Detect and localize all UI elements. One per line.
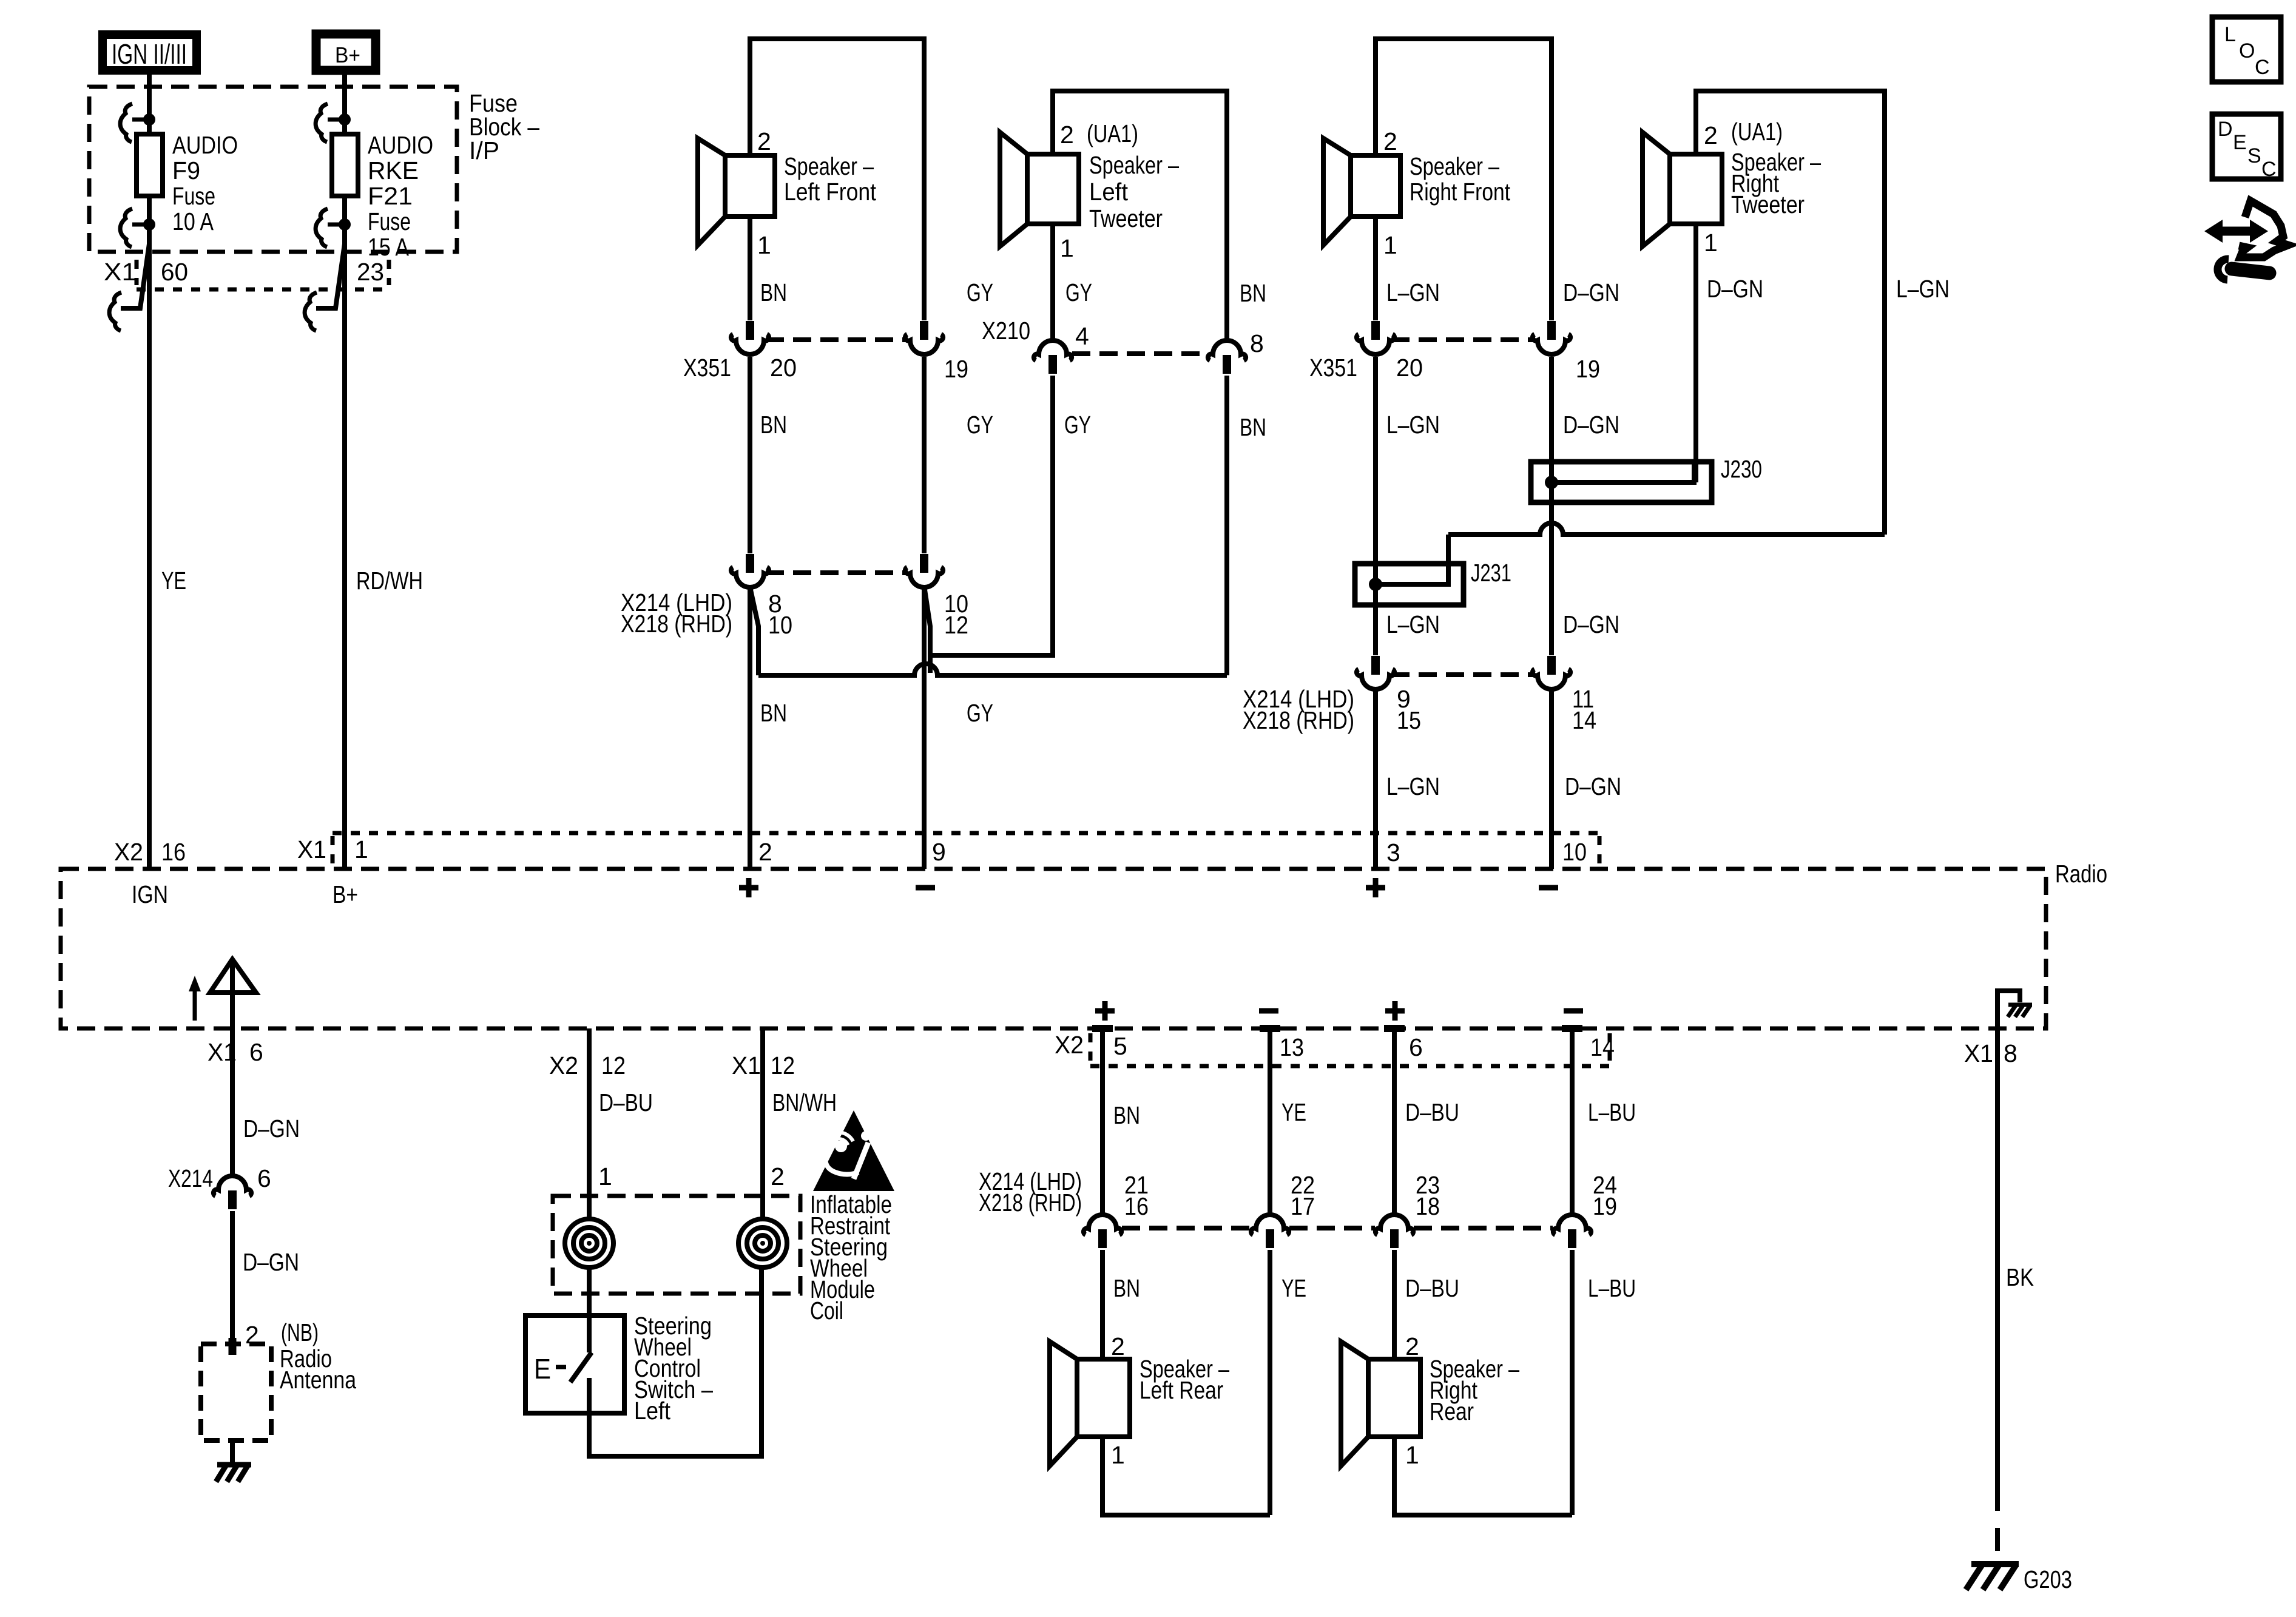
wire D-GN to radio pin 10 <box>1549 690 1554 869</box>
pin labels 21/16 <box>1124 1171 1149 1220</box>
wire D-BU to right rear speaker pin 2 <box>1392 1250 1397 1359</box>
wire switch to coil2 loop <box>589 1268 761 1456</box>
wire L-GN RF pin1 down <box>1373 217 1378 320</box>
label Fuse Block - I/P <box>469 89 539 164</box>
wrench icon <box>2218 259 2269 280</box>
svg-text:IGN: IGN <box>132 880 168 908</box>
svg-text:B+: B+ <box>335 42 360 67</box>
svg-text:14: 14 <box>1590 1033 1615 1061</box>
svg-text:YE: YE <box>1281 1274 1306 1302</box>
svg-text:F9: F9 <box>172 157 200 184</box>
svg-text:Right Front: Right Front <box>1410 178 1510 206</box>
connector X351 left dashed link <box>766 337 908 342</box>
svg-text:4: 4 <box>1075 322 1089 350</box>
wire BK radio X1-8 down <box>1995 1028 2000 1488</box>
ground G203 <box>1966 1564 2019 1590</box>
speaker Left Rear <box>1050 1342 1130 1466</box>
connector X214 pin 9/15 (L-GN) <box>1357 656 1394 689</box>
plus sign pin 3 <box>1366 878 1385 897</box>
svg-text:GY: GY <box>1064 411 1091 439</box>
svg-text:15: 15 <box>1397 706 1421 734</box>
label AUDIO RKE F21 Fuse 15 A <box>368 131 433 261</box>
wire D-BU radio X2-12 down <box>587 1028 592 1219</box>
connector X210 dashed link <box>1072 351 1207 356</box>
svg-text:C: C <box>2255 56 2270 79</box>
wire GY tweeter below X210 to elbow <box>930 376 1053 673</box>
wire BN radio X2-5 down <box>1100 1028 1105 1215</box>
svg-text:BN: BN <box>1113 1101 1140 1129</box>
wire BN to X214 <box>748 357 752 553</box>
connector X351 pin 19 (GY) <box>905 321 943 354</box>
svg-text:X1: X1 <box>297 836 326 863</box>
wire YE fuse F9 to radio IGN <box>147 196 152 869</box>
svg-text:2: 2 <box>1111 1332 1125 1360</box>
svg-text:Speaker –: Speaker – <box>1089 151 1179 179</box>
radio bottom pin X2 12 <box>549 1052 626 1079</box>
connector X210 pin 8 (BN) <box>1208 340 1246 374</box>
wire L-BU to right rear loop <box>1570 1250 1575 1515</box>
speaker Right Rear <box>1341 1342 1420 1466</box>
svg-text:D: D <box>2218 118 2233 141</box>
wire stub into antenna box <box>229 1338 237 1355</box>
speaker Left Tweeter <box>1000 132 1079 246</box>
connector X214 pin 11/14 (D-GN) <box>1533 656 1570 689</box>
radio antenna dashed box <box>201 1344 271 1440</box>
connector X214 pin 10/12 (GY) <box>905 554 943 587</box>
svg-text:BN: BN <box>760 279 787 306</box>
svg-text:X2: X2 <box>1055 1031 1084 1059</box>
svg-text:L–GN: L–GN <box>1386 610 1440 638</box>
svg-text:GY: GY <box>967 411 993 439</box>
svg-text:F21: F21 <box>368 182 413 210</box>
radio bottom pin X1 12 <box>732 1052 795 1079</box>
wire branch X214-8 to tweeter link <box>751 590 758 675</box>
svg-text:Left: Left <box>1089 178 1129 206</box>
svg-text:RD/WH: RD/WH <box>356 567 423 595</box>
svg-text:L–GN: L–GN <box>1386 411 1440 439</box>
clockspring coil 1 <box>565 1219 613 1268</box>
connector X1 pin 60 labels <box>104 258 188 286</box>
svg-text:15 A: 15 A <box>368 233 410 261</box>
svg-text:10: 10 <box>1562 838 1587 866</box>
coil module dashed box <box>553 1196 800 1294</box>
connector X214 pin 24/19 <box>1553 1215 1591 1248</box>
svg-text:Left Rear: Left Rear <box>1140 1376 1223 1404</box>
ground symbol inside radio (X1-8) <box>1997 991 2032 1028</box>
svg-text:L–GN: L–GN <box>1386 772 1440 800</box>
svg-text:2: 2 <box>1383 127 1397 155</box>
svg-text:Radio: Radio <box>2055 860 2107 888</box>
svg-text:(UA1): (UA1) <box>1731 118 1783 146</box>
connector X214 pin 8/10 (BN) <box>731 554 769 587</box>
svg-text:Left Front: Left Front <box>784 178 877 206</box>
fuse block I/P dashed box <box>89 87 457 252</box>
wire GY to X214 <box>922 357 927 553</box>
svg-text:1: 1 <box>1111 1441 1125 1469</box>
svg-text:D–GN: D–GN <box>1707 275 1763 303</box>
svg-text:6: 6 <box>249 1038 263 1066</box>
svg-text:AUDIO: AUDIO <box>368 131 433 159</box>
svg-text:X1: X1 <box>732 1052 761 1079</box>
svg-text:RKE: RKE <box>368 157 419 184</box>
svg-text:2: 2 <box>1704 121 1718 149</box>
svg-text:1: 1 <box>1060 234 1074 262</box>
svg-text:J230: J230 <box>1721 455 1762 483</box>
svg-text:YE: YE <box>1281 1098 1306 1126</box>
pin labels 9 / 15 <box>1397 685 1421 734</box>
svg-text:(NB): (NB) <box>281 1318 319 1346</box>
DESC reference box <box>2212 114 2281 181</box>
svg-text:10: 10 <box>768 611 792 639</box>
speaker Right Front <box>1323 138 1400 245</box>
pin labels 10 / 12 <box>944 590 968 639</box>
svg-text:BN: BN <box>1113 1274 1140 1302</box>
svg-text:20: 20 <box>1396 354 1423 382</box>
svg-text:O: O <box>2239 39 2255 62</box>
wire right rear pin1 loop to L-BU <box>1394 1437 1572 1515</box>
svg-text:10 A: 10 A <box>172 208 214 235</box>
wire D-GN radio X1-6 to X214-6 <box>230 1028 235 1176</box>
svg-text:BN: BN <box>760 411 787 439</box>
svg-text:L–BU: L–BU <box>1588 1274 1636 1302</box>
wire GY LT pin1 down <box>1050 224 1055 340</box>
connector X351 right dashed link <box>1391 337 1535 342</box>
svg-text:BN/WH: BN/WH <box>772 1089 837 1116</box>
connector X214 pin 23/18 <box>1376 1215 1413 1248</box>
svg-text:D–BU: D–BU <box>1405 1098 1459 1126</box>
svg-text:1: 1 <box>1704 229 1718 257</box>
antenna symbol inside radio <box>189 959 256 1028</box>
wire LT pin2 loop to BN branch <box>1053 91 1227 340</box>
wire BN to left rear speaker pin 2 <box>1100 1250 1105 1359</box>
svg-text:X218 (RHD): X218 (RHD) <box>621 610 732 638</box>
svg-text:23: 23 <box>357 258 384 286</box>
svg-text:D–GN: D–GN <box>243 1115 300 1143</box>
svg-text:60: 60 <box>161 258 188 286</box>
svg-text:2: 2 <box>758 838 772 866</box>
svg-text:Antenna: Antenna <box>280 1366 356 1394</box>
switch symbol E-/ <box>534 1352 592 1385</box>
svg-text:X1: X1 <box>104 258 137 286</box>
radio top pin labels X1 1 (B+) <box>297 836 368 863</box>
svg-text:13: 13 <box>1280 1033 1304 1061</box>
wire left rear pin1 loop to YE <box>1102 1437 1270 1515</box>
svg-text:Tweeter: Tweeter <box>1089 204 1163 232</box>
wire J231 branch to right tweeter L-GN (hop over D-GN) <box>1448 523 1885 564</box>
svg-text:1: 1 <box>1405 1441 1419 1469</box>
connector X214 pin 22/17 <box>1251 1215 1289 1248</box>
svg-text:(UA1): (UA1) <box>1087 120 1138 147</box>
power label IGN II/III <box>103 35 197 70</box>
svg-text:2: 2 <box>1060 121 1074 149</box>
svg-text:X218 (RHD): X218 (RHD) <box>1243 706 1354 734</box>
svg-text:16: 16 <box>161 838 186 866</box>
svg-text:D–BU: D–BU <box>1405 1274 1459 1302</box>
svg-text:G203: G203 <box>2024 1565 2072 1593</box>
X1 fuse block connector dotted outline <box>137 260 391 289</box>
minus sign pin 9 <box>916 885 935 891</box>
svg-text:18: 18 <box>1416 1192 1440 1220</box>
radio bottom pin X1 8 (ground) <box>1964 1039 2017 1067</box>
wire L-BU radio pin14 down <box>1570 1028 1575 1215</box>
wire IGN to fuse F9 <box>147 70 152 134</box>
label Speaker - Right Rear <box>1430 1355 1519 1425</box>
svg-text:19: 19 <box>1576 355 1600 383</box>
clockspring coil 2 <box>738 1219 787 1268</box>
label Speaker - Right Front <box>1410 152 1510 206</box>
label Speaker - Left Tweeter <box>1089 151 1179 232</box>
wire YE radio pin13 down <box>1268 1028 1272 1215</box>
svg-text:Speaker –: Speaker – <box>784 152 874 180</box>
connector X351 pin 20 (BN) <box>731 321 769 354</box>
wire B+ to fuse F21 <box>342 70 347 134</box>
svg-text:Fuse: Fuse <box>368 208 411 235</box>
wire YE to left rear loop <box>1268 1250 1272 1515</box>
svg-text:AUDIO: AUDIO <box>172 131 238 159</box>
wire branch X214-10 to GY junction <box>925 590 930 673</box>
svg-text:X2: X2 <box>114 838 143 866</box>
svg-text:X351: X351 <box>683 354 731 382</box>
wire RF pin2 loop to D-GN <box>1376 39 1551 320</box>
svg-text:X351: X351 <box>1309 354 1357 382</box>
svg-text:Coil: Coil <box>810 1297 843 1325</box>
svg-text:17: 17 <box>1291 1192 1315 1220</box>
terminal clip X1-23 <box>305 244 345 331</box>
svg-text:E: E <box>534 1353 551 1385</box>
wire D-BU radio pin6 down <box>1392 1028 1397 1215</box>
svg-text:B+: B+ <box>333 880 358 908</box>
wire D-GN to radio antenna <box>230 1211 235 1352</box>
wire BK dashed section <box>1995 1488 2000 1564</box>
svg-text:1: 1 <box>598 1163 612 1190</box>
svg-text:2: 2 <box>757 127 771 155</box>
svg-text:Speaker –: Speaker – <box>1410 152 1499 180</box>
label Speaker - Right Tweeter <box>1731 148 1821 218</box>
radio bottom pin X1 6 (antenna) <box>208 1038 263 1066</box>
svg-text:14: 14 <box>1572 706 1596 734</box>
svg-text:2: 2 <box>1405 1332 1419 1360</box>
svg-text:D–GN: D–GN <box>1563 279 1619 306</box>
svg-text:GY: GY <box>967 279 993 306</box>
svg-text:6: 6 <box>257 1164 271 1192</box>
wire LF pin2 loop to GY <box>750 39 924 320</box>
LOC reference box <box>2212 17 2281 82</box>
svg-text:BK: BK <box>2006 1263 2034 1291</box>
svg-text:1: 1 <box>1383 231 1397 259</box>
svg-text:3: 3 <box>1386 839 1400 866</box>
svg-text:16: 16 <box>1124 1192 1149 1220</box>
X1 connector dotted outline at radio top <box>333 833 1599 864</box>
svg-text:19: 19 <box>944 355 968 383</box>
svg-text:YE: YE <box>161 567 186 595</box>
wire L-GN X351 to J231 <box>1373 357 1378 655</box>
label Inflatable Restraint Steering Wheel Module Coil <box>810 1190 892 1325</box>
svg-text:C: C <box>2261 158 2277 181</box>
svg-text:BN: BN <box>760 699 787 727</box>
splice J231 <box>1355 564 1464 605</box>
wire L-GN to radio pin 3 <box>1373 690 1378 869</box>
wire coil1 to switch <box>587 1268 592 1352</box>
svg-text:2: 2 <box>771 1163 785 1190</box>
svg-text:8: 8 <box>1250 329 1264 357</box>
svg-text:S: S <box>2247 144 2261 167</box>
svg-text:X218 (RHD): X218 (RHD) <box>979 1189 1082 1217</box>
wire RD/WH fuse F21 to radio B+ <box>342 196 347 869</box>
svg-text:Fuse: Fuse <box>172 182 215 210</box>
svg-text:L–GN: L–GN <box>1386 279 1440 306</box>
connector X351 pin 20 (L-GN) <box>1357 321 1394 354</box>
connector X214 right dashed link <box>1391 672 1535 677</box>
airbag warning triangle <box>813 1110 894 1191</box>
label X214 (LHD) / X218 (RHD) <box>621 589 732 638</box>
svg-text:D–BU: D–BU <box>599 1089 653 1116</box>
svg-text:X210: X210 <box>982 317 1030 345</box>
svg-text:12: 12 <box>771 1052 795 1079</box>
connector X210 pin 4 (GY) <box>1034 340 1072 374</box>
svg-text:Rear: Rear <box>1430 1397 1474 1425</box>
label Speaker - Left Rear <box>1140 1355 1229 1404</box>
svg-text:L–BU: L–BU <box>1588 1098 1636 1126</box>
label AUDIO F9 Fuse 10 A <box>172 131 238 235</box>
svg-text:BN: BN <box>1240 413 1266 441</box>
speaker Right Tweeter <box>1643 132 1722 246</box>
radio bottom edge pin ticks <box>1092 1025 1582 1032</box>
svg-text:12: 12 <box>944 611 968 639</box>
speaker Left Front <box>698 138 775 245</box>
rear X214 dashed link <box>1122 1226 1553 1230</box>
fuse F21 AUDIO RKE 15A <box>316 104 358 247</box>
wire D-GN RT pin1 down to J230 <box>1693 224 1698 482</box>
minus sign rear pin 13 <box>1259 1008 1278 1014</box>
label Radio Antenna <box>280 1345 356 1394</box>
svg-text:D–GN: D–GN <box>1565 772 1621 800</box>
svg-text:1: 1 <box>354 836 368 863</box>
svg-text:D–GN: D–GN <box>1563 411 1619 439</box>
pin labels 22/17 <box>1291 1171 1315 1220</box>
svg-text:J231: J231 <box>1471 559 1511 587</box>
svg-text:E: E <box>2233 131 2247 154</box>
radio top pin labels X2 16 (IGN) <box>114 838 186 866</box>
plus sign rear pin 5 <box>1095 1001 1115 1021</box>
svg-text:D–GN: D–GN <box>243 1248 299 1276</box>
svg-text:BN: BN <box>1240 279 1266 307</box>
wire RT pin2 loop to L-GN branch <box>1696 91 1885 535</box>
svg-text:1: 1 <box>757 231 771 259</box>
svg-text:I/P: I/P <box>469 137 499 164</box>
svg-text:X1: X1 <box>1964 1039 1993 1067</box>
fuse F9 AUDIO 10A <box>120 104 163 247</box>
svg-text:8: 8 <box>2004 1039 2017 1067</box>
label X214 (LHD) / X218 (RHD) right <box>1243 685 1354 734</box>
svg-text:L: L <box>2224 23 2236 46</box>
vehicle panel icon with double arrow <box>2204 201 2288 257</box>
connector X351 pin 19 (D-GN) <box>1533 321 1570 354</box>
terminal clip X1-60 <box>109 244 149 331</box>
minus sign pin 10 <box>1539 885 1558 891</box>
label Steering Wheel Control Switch - Left <box>634 1312 713 1425</box>
svg-text:L–GN: L–GN <box>1896 275 1950 303</box>
connector X214 pin 6 <box>214 1176 251 1209</box>
ground below antenna <box>216 1440 251 1482</box>
power label B+ <box>316 34 376 70</box>
wire GY below X214 to radio pin 9 <box>922 589 927 869</box>
svg-text:X214: X214 <box>168 1164 213 1192</box>
wire BN below X214 to radio pin 2 <box>748 589 752 869</box>
pin labels 24/19 <box>1593 1171 1617 1220</box>
svg-text:GY: GY <box>967 699 993 727</box>
minus sign rear pin 14 <box>1564 1008 1583 1014</box>
pin labels 11 / 14 <box>1572 685 1596 734</box>
plus sign pin 2 <box>739 878 758 897</box>
radio dashed box <box>61 869 2046 1028</box>
pin labels 8 / 10 <box>768 590 792 639</box>
connector X214 pin 21/16 <box>1084 1215 1121 1248</box>
svg-text:19: 19 <box>1593 1192 1617 1220</box>
svg-text:5: 5 <box>1113 1032 1127 1060</box>
wire D-GN X351 to J230 <box>1549 357 1554 655</box>
plus sign rear pin 6 <box>1385 1001 1405 1021</box>
X2 connector dotted outline at radio bottom <box>1090 1033 1610 1066</box>
svg-text:12: 12 <box>601 1052 626 1079</box>
steering wheel control switch box <box>525 1315 624 1413</box>
wire BN tweeter below X210 down <box>1224 376 1229 675</box>
svg-text:6: 6 <box>1409 1033 1423 1061</box>
wire BN/WH radio X1-12 down <box>760 1028 765 1219</box>
svg-text:Left: Left <box>634 1397 671 1425</box>
svg-text:GY: GY <box>1065 279 1092 306</box>
label Speaker - Left Front <box>784 152 877 206</box>
svg-text:Tweeter: Tweeter <box>1731 191 1805 218</box>
wire BN LF pin1 down <box>748 217 752 320</box>
splice J230 <box>1531 462 1712 502</box>
svg-text:IGN II/III: IGN II/III <box>112 38 187 70</box>
svg-text:X2: X2 <box>549 1052 578 1079</box>
svg-text:D–GN: D–GN <box>1563 610 1619 638</box>
pin labels 23/18 <box>1416 1171 1440 1220</box>
connector X214 left dashed link <box>766 570 908 575</box>
svg-text:20: 20 <box>770 354 797 382</box>
label X214 (LHD) X218 (RHD) rear <box>979 1167 1082 1217</box>
wire BN link to tweeter (hop over GY) <box>758 664 1227 675</box>
svg-text:9: 9 <box>932 838 946 866</box>
